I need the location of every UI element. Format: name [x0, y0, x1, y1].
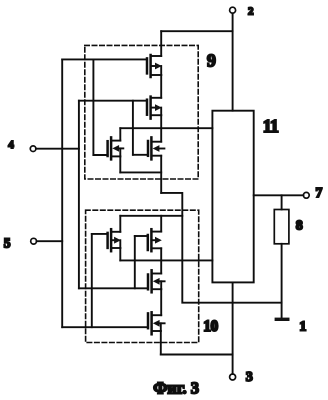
wire VT1 drain riser [160, 31, 162, 56]
svg-text:5: 5 [4, 235, 11, 250]
wire block 11 bottom to terminal 3 [232, 282, 234, 374]
wire VT7/VT8 drain tie [120, 215, 182, 217]
transistor VT1 [62, 55, 162, 77]
transistor VT7 [92, 229, 121, 251]
svg-text:10: 10 [203, 318, 218, 335]
wire VT1 source to VT2 drain [160, 75, 162, 98]
transistor VT8 [135, 229, 162, 251]
wire left column (net 5) [61, 59, 63, 327]
wire bottom rail to terminal 3 [161, 354, 233, 356]
dashed box 10 [86, 210, 199, 342]
wire VT7 gate feed [91, 234, 93, 327]
transistor VT4 [133, 137, 165, 159]
terminal 7 [303, 192, 309, 198]
transistor VT5 [79, 270, 165, 292]
svg-text:2: 2 [248, 5, 254, 17]
wire VT7 source dropper [119, 248, 121, 260]
wire terminal 4 [36, 148, 79, 150]
wire output block 11 to terminal 7 [254, 194, 304, 196]
wire VT3/VT4 source join [120, 171, 161, 173]
terminal 2 [230, 7, 236, 13]
svg-text:3: 3 [246, 370, 253, 385]
wire VT4 source down [160, 156, 162, 193]
wire jog to ground rail [161, 193, 281, 303]
wire top rail [161, 30, 232, 32]
wire VT4 gate feed [132, 101, 134, 155]
terminal 4 [30, 146, 36, 152]
svg-text:7: 7 [316, 185, 323, 200]
transistor VT2 [79, 97, 162, 119]
terminal 5 [31, 238, 37, 244]
wire VT7 drain riser [119, 216, 121, 232]
svg-text:4: 4 [8, 139, 14, 151]
svg-text:9: 9 [207, 50, 216, 70]
wire VT8 gate feed [134, 236, 136, 288]
dashed box 9 [85, 45, 198, 179]
terminal 3 [230, 374, 236, 380]
ground 1 [275, 318, 290, 321]
wire VT3 drain riser [119, 128, 121, 140]
block 11 [212, 111, 253, 283]
transistor VT3 [93, 137, 123, 159]
wire mid column (net 4) [78, 101, 80, 289]
transistor VT6 [62, 312, 164, 334]
wire terminal 5 [37, 240, 63, 242]
svg-text:8: 8 [296, 219, 303, 234]
wire VT3 source dropper [119, 156, 121, 172]
wire VT6 source dropper [160, 331, 162, 355]
wire VT8 drain riser [160, 216, 162, 232]
svg-text:1: 1 [299, 320, 306, 335]
wire VT5 source to VT6 drain [160, 289, 162, 315]
svg-text:Фиг. 3: Фиг. 3 [153, 379, 199, 398]
resistor 8 [274, 195, 289, 318]
wire VT2 source to VT4 drain [160, 115, 162, 142]
wire VT3 gate feed [92, 59, 94, 155]
wire VT8 source through bus to VT5 drain [160, 248, 162, 273]
wire bus to block 11 (y=260) [120, 259, 212, 261]
svg-text:11: 11 [263, 116, 279, 136]
wire node to block 11 (y=128) [120, 127, 212, 129]
wire terminal 2 to block 11 top [232, 13, 234, 110]
